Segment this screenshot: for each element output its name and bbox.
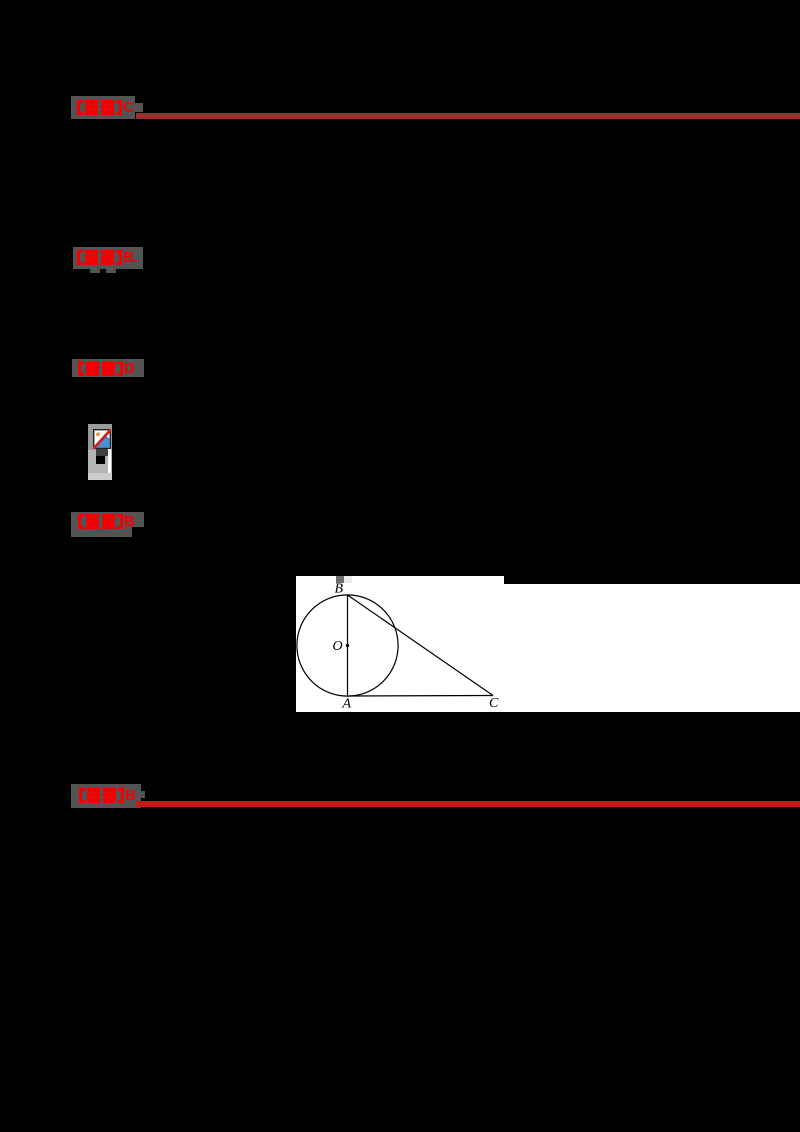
svg-text:C: C bbox=[489, 696, 499, 711]
answer block 4: red label 【答案】B bbox=[78, 514, 135, 529]
answer block 3: highlight box bbox=[72, 359, 144, 377]
svg-text:B: B bbox=[335, 582, 344, 597]
answer block 5: red label 【答案】B bbox=[79, 788, 136, 803]
diagram white background: pasted image area bbox=[296, 576, 504, 712]
answer block 4: highlight box row 2 bbox=[71, 527, 132, 537]
center dot bbox=[346, 644, 349, 647]
answer block 5: small highlighted space bbox=[138, 791, 145, 798]
svg-text:A: A bbox=[342, 697, 352, 712]
answer block 2: highlight box bbox=[73, 247, 143, 269]
answer block 1: dark red rule bbox=[136, 113, 800, 119]
answer block 2: descender tab 1 bbox=[90, 269, 101, 274]
anchor marker light square bbox=[344, 576, 352, 583]
answer block 3: red label 【答案】D bbox=[78, 361, 135, 376]
diameter AB bbox=[347, 595, 349, 696]
circle O bbox=[297, 595, 398, 696]
answer block 5: highlight box bbox=[71, 784, 141, 808]
answer block 1: highlight box bbox=[71, 96, 135, 119]
tangent AC bbox=[348, 695, 494, 698]
broken-image placeholder bbox=[88, 424, 112, 480]
answer block 4: highlight box row 1 bbox=[71, 512, 144, 528]
answer block 5: bright red rule bbox=[136, 801, 800, 808]
svg-text:O: O bbox=[333, 639, 343, 654]
secant BC bbox=[348, 595, 494, 696]
answer block 1: small highlighted space bbox=[135, 103, 143, 112]
broken-image icon bbox=[93, 429, 111, 449]
answer block 2: descender tab 2 bbox=[106, 269, 117, 274]
answer block 2: red label 【答案】B. bbox=[77, 250, 138, 265]
answer block 1: red label 【答案】C bbox=[77, 100, 134, 115]
anchor marker dark square bbox=[336, 576, 344, 583]
geometry diagram bbox=[296, 576, 504, 712]
diagram white background: right cell area bbox=[504, 584, 800, 712]
